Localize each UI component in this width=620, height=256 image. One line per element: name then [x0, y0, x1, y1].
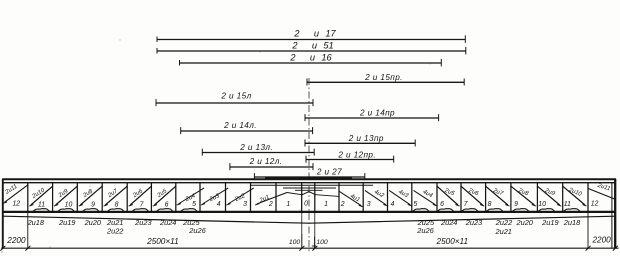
- svg-text:2: 2: [289, 53, 296, 63]
- svg-text:2500×11: 2500×11: [146, 237, 179, 246]
- svg-text:2и26: 2и26: [416, 226, 434, 235]
- svg-text:2и22: 2и22: [106, 227, 123, 236]
- svg-text:4: 4: [217, 201, 221, 208]
- svg-text:100: 100: [289, 239, 301, 246]
- svg-text:2 и 12пр.: 2 и 12пр.: [337, 150, 376, 159]
- svg-text:2и24: 2и24: [159, 218, 176, 227]
- svg-text:2и26: 2и26: [188, 226, 206, 235]
- svg-text:2и22: 2и22: [495, 218, 512, 227]
- svg-text:6: 6: [165, 202, 169, 209]
- svg-text:0: 0: [304, 200, 308, 207]
- svg-text:2и24: 2и24: [440, 218, 457, 227]
- svg-text:2и19: 2и19: [58, 218, 75, 227]
- svg-text:2и18: 2и18: [27, 218, 45, 227]
- svg-text:2200: 2200: [591, 236, 611, 245]
- svg-text:2500×11: 2500×11: [436, 237, 469, 246]
- svg-text:5: 5: [413, 201, 417, 208]
- svg-text:2 и 27: 2 и 27: [316, 168, 342, 177]
- svg-text:2: 2: [293, 28, 300, 38]
- svg-text:11: 11: [38, 202, 45, 209]
- svg-text:2 и 13л.: 2 и 13л.: [239, 143, 273, 152]
- svg-text:2и23: 2и23: [134, 218, 152, 227]
- svg-text:2 и 14пр: 2 и 14пр: [359, 109, 395, 118]
- svg-text:и: и: [310, 53, 315, 63]
- svg-text:100: 100: [316, 239, 328, 246]
- svg-text:2и18: 2и18: [563, 218, 581, 227]
- svg-text:2и20: 2и20: [84, 218, 102, 227]
- svg-text:6: 6: [440, 201, 444, 208]
- svg-text:2и20: 2и20: [515, 218, 533, 227]
- svg-text:12: 12: [591, 200, 599, 207]
- svg-text:1: 1: [324, 201, 328, 208]
- svg-text:2и21: 2и21: [106, 218, 123, 227]
- svg-text:2: 2: [340, 201, 345, 208]
- svg-text:11: 11: [564, 201, 571, 208]
- svg-text:2 и 14л.: 2 и 14л.: [223, 121, 257, 130]
- svg-text:2и21: 2и21: [494, 227, 511, 236]
- svg-text:и: и: [314, 28, 319, 38]
- svg-text:3: 3: [243, 201, 247, 208]
- svg-text:9: 9: [91, 202, 95, 209]
- svg-text:2 и 15пр.: 2 и 15пр.: [364, 73, 403, 82]
- svg-text:5: 5: [192, 201, 196, 208]
- svg-text:3: 3: [367, 201, 371, 208]
- svg-text:12: 12: [12, 201, 20, 208]
- svg-text:2 и 15л: 2 и 15л: [220, 92, 251, 101]
- svg-text:51: 51: [323, 40, 333, 50]
- svg-text:9: 9: [514, 201, 518, 208]
- svg-text:10: 10: [538, 201, 546, 208]
- svg-text:2и23: 2и23: [465, 218, 483, 227]
- svg-text:2200: 2200: [6, 236, 26, 245]
- svg-text:4: 4: [390, 201, 394, 208]
- svg-text:2: 2: [291, 40, 298, 50]
- svg-text:8: 8: [488, 201, 492, 208]
- svg-text:2 и 12л.: 2 и 12л.: [249, 157, 283, 166]
- svg-text:16: 16: [321, 53, 332, 63]
- svg-text:1: 1: [286, 201, 290, 208]
- svg-text:2: 2: [268, 201, 273, 208]
- svg-text:и: и: [312, 40, 317, 50]
- svg-text:2и19: 2и19: [541, 218, 558, 227]
- svg-text:17: 17: [325, 28, 336, 38]
- svg-text:2 и 13пр: 2 и 13пр: [348, 134, 384, 143]
- svg-text:10: 10: [65, 202, 73, 209]
- svg-text:8: 8: [115, 202, 119, 209]
